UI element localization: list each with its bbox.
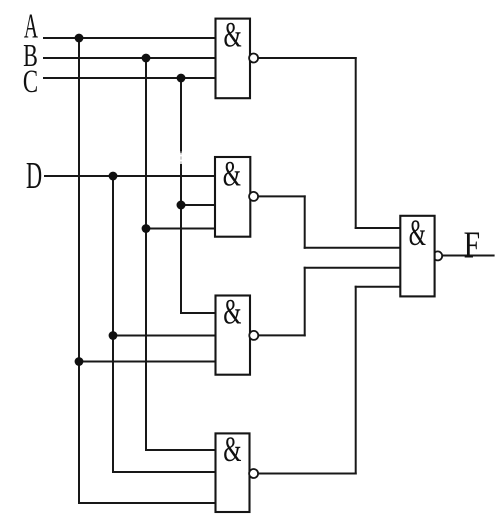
junction dot C branch at U2 pin 2	[177, 201, 186, 210]
U4 output inversion bubble	[249, 469, 258, 478]
junction dot node C on wire C	[177, 74, 186, 83]
wire U1 output horizontal	[259, 57, 356, 59]
wire C stub to U2 pin 2	[181, 204, 216, 206]
wire F output	[443, 255, 494, 257]
svg-text:F: F	[464, 225, 480, 266]
wire U3 output vertical	[304, 268, 306, 336]
U3 output inversion bubble	[249, 331, 258, 340]
wire U2 output vertical	[304, 196, 306, 247]
svg-text:&: &	[223, 291, 241, 331]
wire U4 output vertical	[355, 287, 357, 474]
wire A input	[44, 37, 216, 39]
junction dot B branch at U2 pin 3	[142, 224, 151, 233]
wire U3 output horizontal	[258, 334, 304, 336]
wire U4 output horizontal	[258, 473, 356, 475]
svg-text:C: C	[23, 64, 38, 100]
NAND gate U1 box	[216, 19, 251, 99]
svg-text:&: &	[223, 14, 241, 54]
wire D branch to U4 pin 2	[113, 471, 216, 473]
svg-text:&: &	[223, 153, 241, 193]
wire C input	[44, 77, 216, 79]
wire U3 output to U5 pin 3	[305, 267, 401, 269]
svg-text:&: &	[409, 212, 426, 253]
wire U4 output to U5 pin 4	[356, 286, 401, 288]
svg-text:D: D	[26, 154, 42, 197]
U2 output inversion bubble	[249, 192, 258, 201]
wire U1 output vertical	[355, 58, 357, 228]
wire C vertical branch faint scan gap	[180, 152, 182, 165]
junction dot node A on wire A	[75, 34, 84, 43]
wire A vertical branch	[78, 38, 80, 503]
NAND gate U3 box	[216, 296, 251, 375]
junction dot node D on wire D	[109, 172, 118, 181]
wire B vertical branch	[145, 58, 147, 450]
wire B stub to U2 pin 3	[146, 228, 216, 230]
NAND gate U4 box	[216, 433, 250, 512]
wire D input	[45, 175, 215, 177]
wire B input	[44, 57, 216, 59]
wire C vertical branch lower	[180, 165, 182, 313]
wire B branch to U4 pin 1	[146, 449, 216, 451]
wire A stub to U3 pin 3	[79, 361, 216, 363]
junction dot D branch at U3 pin 2	[109, 331, 118, 340]
wire C vertical branch upper	[180, 78, 182, 152]
wire C branch to U3 pin 1	[181, 312, 216, 314]
wire A branch to U4 pin 3	[79, 502, 216, 504]
NAND gate U2 box	[215, 157, 250, 237]
NAND gate U5 box	[400, 216, 434, 297]
wire U2 output horizontal	[259, 195, 305, 197]
wire U2 output to U5 pin 2	[305, 247, 401, 249]
junction dot node B on wire B	[142, 54, 151, 63]
wire D stub to U3 pin 2	[113, 335, 216, 337]
U5 output inversion bubble	[433, 251, 442, 260]
junction dot A branch at U3 pin 3	[75, 357, 84, 366]
wire D vertical branch	[112, 176, 114, 472]
U1 output inversion bubble	[249, 54, 258, 63]
wire U1 output to U5 pin 1	[356, 227, 401, 229]
svg-text:&: &	[223, 429, 241, 469]
